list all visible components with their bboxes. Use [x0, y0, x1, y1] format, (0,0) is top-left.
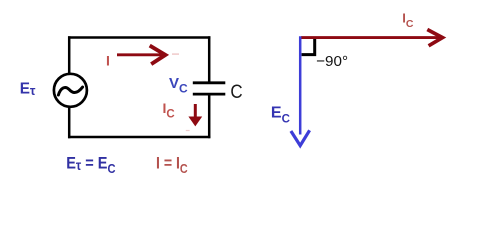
- svg-text:IC: IC: [402, 11, 414, 30]
- equation I = IC: [156, 154, 188, 176]
- svg-text:IC: IC: [163, 100, 175, 120]
- svg-text:I = IC: I = IC: [156, 154, 188, 176]
- svg-text:Eτ: Eτ: [20, 80, 36, 98]
- wire top: [68, 36, 210, 39]
- current arrow IC: [188, 104, 202, 126]
- right angle marker: [302, 39, 315, 55]
- current arrow I: [117, 46, 165, 65]
- label C value: [230, 80, 242, 102]
- phasor IC: [301, 30, 443, 46]
- capacitor C: [193, 83, 226, 94]
- equation ET = EC: [66, 154, 116, 176]
- svg-text:C: C: [230, 80, 242, 102]
- wire right upper: [208, 36, 211, 83]
- svg-text:EC: EC: [271, 105, 290, 126]
- svg-text:I: I: [106, 53, 110, 69]
- svg-text:VC: VC: [169, 75, 188, 96]
- voltage source ET: [54, 74, 87, 107]
- wire left: [68, 36, 71, 138]
- wire right lower: [208, 95, 211, 138]
- wire bottom: [68, 136, 210, 139]
- svg-text:Eτ = EC: Eτ = EC: [66, 154, 116, 176]
- svg-text:−90°: −90°: [316, 53, 348, 70]
- phasor EC: [291, 36, 310, 145]
